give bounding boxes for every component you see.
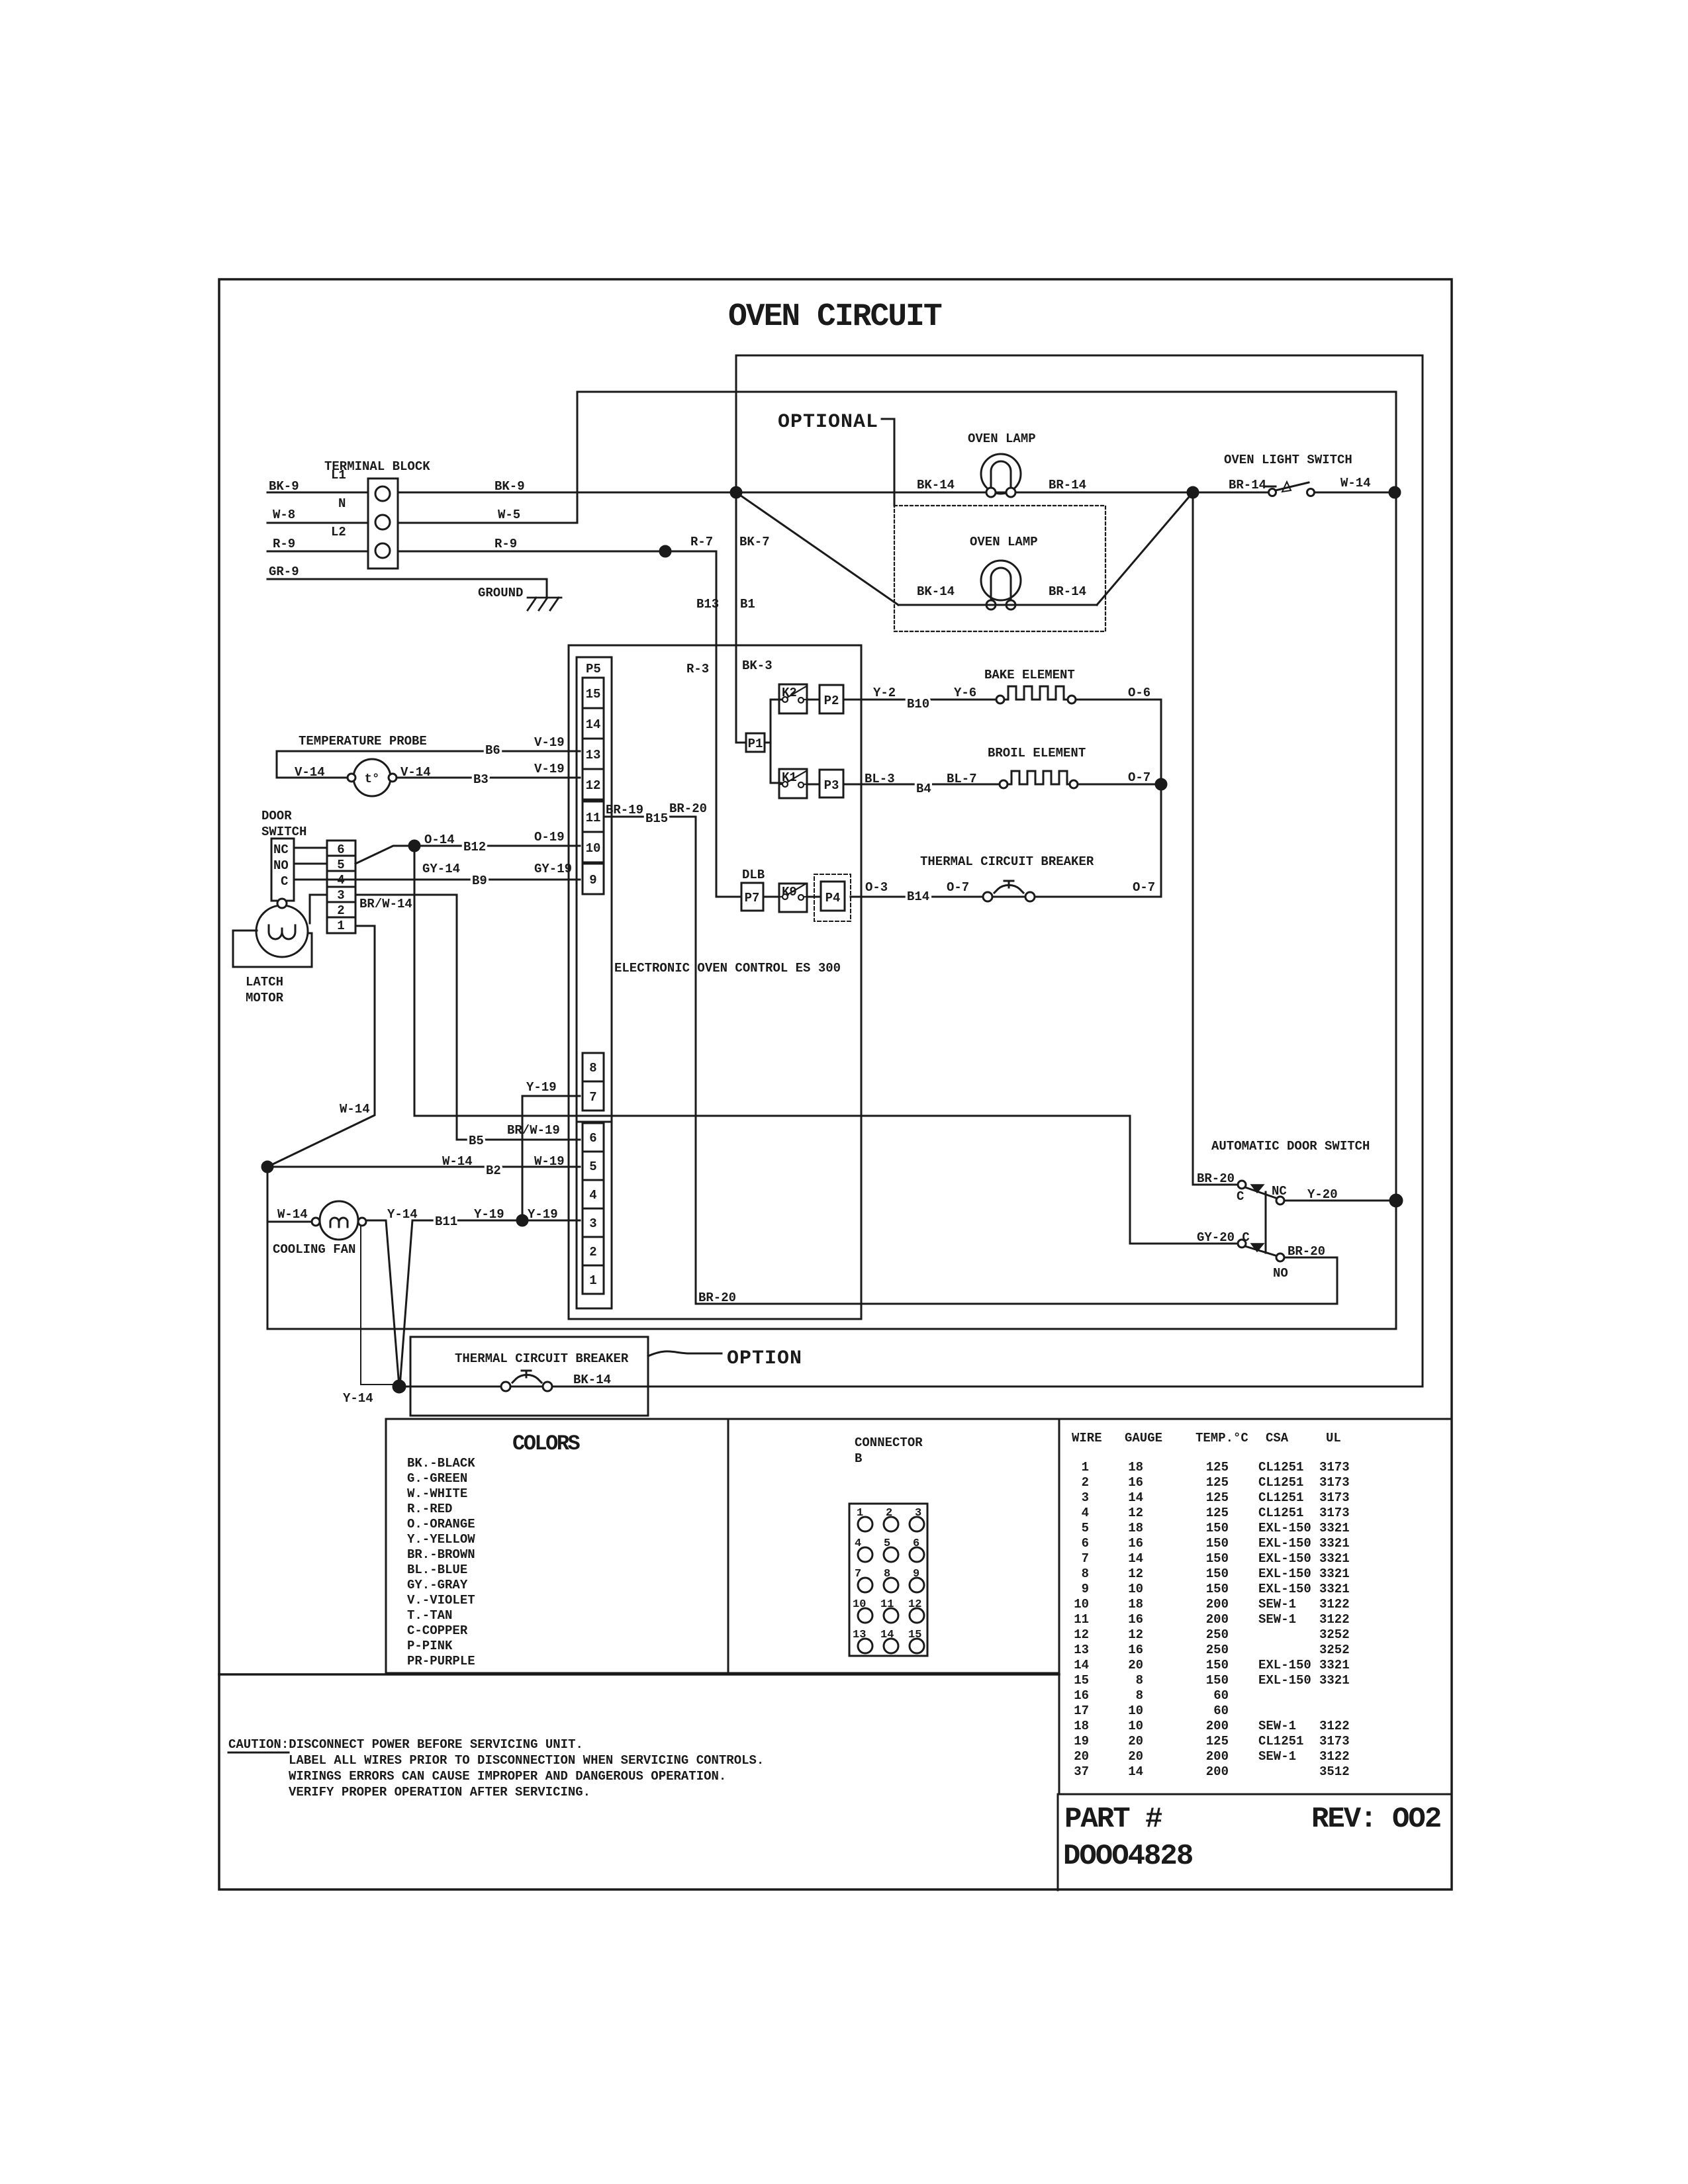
junction wire end right: [1389, 487, 1400, 498]
svg-text:OVEN LAMP: OVEN LAMP: [970, 535, 1038, 549]
svg-text:O.-ORANGE: O.-ORANGE: [407, 1517, 475, 1531]
svg-text:14: 14: [1074, 1658, 1089, 1672]
svg-text:Y-19: Y-19: [474, 1207, 504, 1222]
wire GY-20 run: down, right, down, to auto door switch C: [414, 846, 1238, 1244]
wire bake to right vertical: [1076, 699, 1161, 701]
svg-text:16: 16: [1128, 1612, 1143, 1627]
wire NC to cell6: [294, 847, 327, 849]
svg-text:13: 13: [853, 1629, 866, 1641]
svg-text:150: 150: [1206, 1536, 1229, 1551]
page border frame: [219, 279, 1452, 1889]
svg-text:O-7: O-7: [947, 880, 969, 895]
wire table box: [1059, 1419, 1452, 1794]
svg-text:OPTION: OPTION: [727, 1347, 802, 1370]
svg-text:O-6: O-6: [1128, 686, 1150, 700]
svg-text:37: 37: [1074, 1764, 1089, 1779]
cooling fan: [312, 1201, 366, 1240]
svg-text:150: 150: [1206, 1551, 1229, 1566]
svg-text:B4: B4: [916, 782, 931, 796]
svg-text:TEMPERATURE PROBE: TEMPERATURE PROBE: [299, 734, 427, 749]
optional lamp dashed enclosure: [894, 506, 1105, 631]
svg-text:EXL-150: EXL-150: [1258, 1567, 1311, 1581]
wire B12 to pin 10: [414, 845, 580, 847]
wire BK-14 to big box right: [552, 1386, 1423, 1388]
svg-text:20: 20: [1128, 1734, 1143, 1749]
svg-text:14: 14: [1128, 1490, 1143, 1505]
svg-text:10: 10: [1128, 1582, 1143, 1596]
wire W-14/B2 to pin 5: [267, 1166, 580, 1168]
svg-text:DOOO4828: DOOO4828: [1063, 1840, 1193, 1873]
wire bottom long run y2008: [267, 1328, 1396, 1330]
svg-text:C: C: [1237, 1189, 1244, 1204]
svg-text:W-14: W-14: [442, 1154, 473, 1169]
P4 box: [821, 882, 845, 911]
svg-text:CAUTION:DISCONNECT POWER BEFOR: CAUTION:DISCONNECT POWER BEFORE SERVICIN…: [228, 1737, 583, 1752]
svg-text:3173: 3173: [1319, 1506, 1350, 1520]
svg-text:T.-TAN: T.-TAN: [407, 1608, 452, 1623]
svg-text:GY.-GRAY: GY.-GRAY: [407, 1578, 468, 1592]
svg-text:BR/W-19: BR/W-19: [507, 1123, 560, 1138]
svg-text:125: 125: [1206, 1734, 1229, 1749]
svg-text:125: 125: [1206, 1460, 1229, 1475]
svg-text:150: 150: [1206, 1582, 1229, 1596]
svg-text:W-8: W-8: [273, 508, 295, 522]
svg-text:N: N: [338, 496, 346, 511]
svg-text:Y-19: Y-19: [526, 1080, 557, 1095]
svg-text:1: 1: [1082, 1460, 1089, 1475]
svg-text:BAKE ELEMENT: BAKE ELEMENT: [984, 668, 1075, 682]
svg-text:GY-19: GY-19: [534, 862, 572, 876]
svg-text:COLORS: COLORS: [512, 1432, 581, 1456]
svg-text:R-9: R-9: [494, 537, 517, 551]
svg-text:WIRINGS ERRORS CAN CAUSE IMPRO: WIRINGS ERRORS CAN CAUSE IMPROPER AND DA…: [289, 1769, 726, 1784]
svg-text:EXL-150: EXL-150: [1258, 1582, 1311, 1596]
svg-text:18: 18: [1074, 1719, 1089, 1733]
svg-text:GAUGE: GAUGE: [1125, 1431, 1162, 1445]
junction B11/Y-19: [517, 1215, 528, 1226]
svg-text:8: 8: [1136, 1673, 1143, 1688]
wire NO to cell5: [294, 863, 327, 865]
svg-text:125: 125: [1206, 1506, 1229, 1520]
junction W-14: [262, 1161, 273, 1172]
svg-text:3252: 3252: [1319, 1643, 1350, 1657]
svg-text:10: 10: [1074, 1597, 1089, 1612]
svg-text:TEMP.°C: TEMP.°C: [1196, 1431, 1248, 1445]
pin 3: [583, 1208, 604, 1237]
pin 2: [583, 1237, 604, 1265]
svg-text:C: C: [281, 874, 288, 889]
oven lamp 2: [981, 561, 1021, 610]
caution text: [228, 1737, 764, 1799]
svg-text:O-19: O-19: [534, 830, 565, 844]
connector B pins: [858, 1517, 924, 1653]
svg-text:16: 16: [1128, 1643, 1143, 1657]
svg-text:NO: NO: [273, 858, 289, 873]
svg-text:3122: 3122: [1319, 1749, 1350, 1764]
svg-text:W.-WHITE: W.-WHITE: [407, 1486, 467, 1501]
caution underline: [228, 1752, 289, 1754]
wire B6 to pin 13: [277, 751, 580, 778]
svg-text:3173: 3173: [1319, 1460, 1350, 1475]
svg-text:60: 60: [1213, 1688, 1229, 1703]
svg-text:7: 7: [1082, 1551, 1089, 1566]
pin 11: [583, 801, 604, 832]
wire BK-3 loop (big box) top and right: [736, 355, 1423, 1386]
svg-text:9: 9: [589, 873, 596, 887]
svg-text:B15: B15: [645, 811, 668, 826]
svg-text:3: 3: [1082, 1490, 1089, 1505]
svg-text:Y-20: Y-20: [1307, 1187, 1338, 1202]
svg-text:3321: 3321: [1319, 1673, 1350, 1688]
svg-text:B5: B5: [469, 1134, 484, 1148]
svg-text:Y-14: Y-14: [343, 1391, 373, 1406]
svg-text:3321: 3321: [1319, 1582, 1350, 1596]
svg-text:B12: B12: [463, 840, 486, 854]
svg-text:17: 17: [1074, 1704, 1089, 1718]
relay K9: [779, 884, 807, 912]
wire W-14 to cooling fan: [267, 1221, 314, 1223]
pin 15: [583, 678, 604, 708]
terminal block body: [368, 478, 398, 569]
wire BK-9 left: [267, 492, 368, 494]
wire B13 vertical: [716, 551, 741, 897]
svg-text:20: 20: [1128, 1749, 1143, 1764]
pin 9: [583, 864, 604, 894]
svg-text:SEW-1: SEW-1: [1258, 1719, 1296, 1733]
wire P1 to K1/K2: [765, 700, 781, 783]
pin 5: [583, 1152, 604, 1180]
svg-text:R-9: R-9: [273, 537, 295, 551]
wire W-8 left: [267, 522, 368, 524]
wire P7 to K9: [763, 896, 779, 898]
wire Y-20: [1284, 1200, 1396, 1202]
pin 12: [583, 769, 604, 799]
svg-text:GROUND: GROUND: [478, 586, 523, 600]
svg-text:4: 4: [589, 1188, 596, 1203]
P1 box: [746, 733, 765, 752]
junction O-14: [409, 841, 420, 851]
latch motor: [256, 899, 308, 957]
optional thermal breaker box: [410, 1337, 648, 1416]
svg-text:R-3: R-3: [686, 662, 709, 676]
wire Y-19 to pin 7: [522, 1096, 580, 1220]
svg-text:8: 8: [1136, 1688, 1143, 1703]
svg-text:CL1251: CL1251: [1258, 1734, 1303, 1749]
svg-text:BR-14: BR-14: [1049, 584, 1086, 599]
svg-text:BL.-BLUE: BL.-BLUE: [407, 1563, 467, 1577]
svg-text:EXL-150: EXL-150: [1258, 1658, 1311, 1672]
svg-text:125: 125: [1206, 1490, 1229, 1505]
wire cell1 to W-14 diagonal junction: [267, 926, 375, 1167]
wire BR-19/B15/BR-20 from pin 11: [604, 817, 1337, 1304]
oven lamp 1: [981, 454, 1021, 497]
svg-text:5: 5: [1082, 1521, 1089, 1535]
svg-text:19: 19: [1074, 1734, 1089, 1749]
svg-text:11: 11: [880, 1598, 894, 1611]
OPTIONAL leader line: [882, 419, 894, 506]
wire P4 to thermal breaker: [851, 896, 984, 898]
svg-text:OVEN CIRCUIT: OVEN CIRCUIT: [728, 299, 942, 335]
wire table rows: [1074, 1460, 1349, 1779]
svg-text:15: 15: [1074, 1673, 1089, 1688]
svg-text:B3: B3: [473, 772, 489, 787]
svg-text:3321: 3321: [1319, 1536, 1350, 1551]
relay K2: [779, 684, 807, 713]
wire broil to right vertical: [1078, 784, 1161, 786]
svg-text:BR-14: BR-14: [1229, 478, 1266, 492]
terminal L1 circle: [375, 486, 390, 501]
oven light switch: [1266, 482, 1315, 496]
connector B pin field box: [849, 1504, 927, 1656]
svg-text:V-19: V-19: [534, 735, 565, 750]
wire K2 to P2: [807, 699, 820, 701]
svg-text:16: 16: [1128, 1536, 1143, 1551]
svg-text:8: 8: [1082, 1567, 1089, 1581]
svg-text:16: 16: [1074, 1688, 1089, 1703]
svg-text:W-19: W-19: [534, 1154, 565, 1169]
svg-text:EXL-150: EXL-150: [1258, 1551, 1311, 1566]
svg-text:NO: NO: [1273, 1266, 1288, 1281]
svg-text:3: 3: [589, 1216, 596, 1231]
right vertical bake/broil/breaker: [1160, 700, 1162, 895]
svg-text:BR/W-14: BR/W-14: [359, 897, 412, 911]
svg-text:BK-14: BK-14: [917, 478, 955, 492]
svg-text:12: 12: [1128, 1627, 1143, 1642]
svg-text:W-14: W-14: [277, 1207, 308, 1222]
svg-text:BK-9: BK-9: [269, 479, 299, 494]
svg-text:GY-14: GY-14: [422, 862, 460, 876]
svg-text:3: 3: [915, 1507, 921, 1520]
svg-text:150: 150: [1206, 1567, 1229, 1581]
svg-text:C-COPPER: C-COPPER: [407, 1623, 468, 1638]
wire junction to breaker: [399, 1386, 501, 1388]
svg-text:L2: L2: [331, 525, 346, 539]
svg-text:3321: 3321: [1319, 1567, 1350, 1581]
svg-text:3: 3: [337, 888, 344, 903]
wire table header: [1072, 1431, 1341, 1445]
svg-text:3122: 3122: [1319, 1719, 1350, 1733]
svg-text:CSA: CSA: [1266, 1431, 1289, 1445]
svg-text:11: 11: [1074, 1612, 1089, 1627]
svg-text:B9: B9: [472, 874, 487, 888]
svg-text:BL-7: BL-7: [947, 772, 977, 786]
optional thermal breaker: [501, 1371, 552, 1391]
ads link vertical: [1265, 1192, 1267, 1253]
svg-text:OVEN LAMP: OVEN LAMP: [968, 432, 1036, 446]
svg-text:10: 10: [853, 1598, 866, 1611]
svg-text:P2: P2: [824, 694, 839, 708]
svg-text:OVEN LIGHT SWITCH: OVEN LIGHT SWITCH: [1224, 453, 1352, 467]
svg-text:11: 11: [586, 811, 601, 825]
wire B3 to pin 12: [397, 777, 580, 779]
ground symbol: [528, 598, 561, 610]
wire K1 to P3: [807, 784, 820, 786]
svg-text:8: 8: [589, 1061, 596, 1075]
svg-text:t°: t°: [365, 772, 380, 786]
svg-text:3321: 3321: [1319, 1551, 1350, 1566]
ads switch lower C-NO: [1238, 1240, 1284, 1261]
wire lamp2 horizontal: [898, 604, 1097, 606]
wire K9 to P4: [807, 896, 821, 898]
svg-text:PART #: PART #: [1064, 1803, 1162, 1836]
svg-text:V-19: V-19: [534, 762, 565, 776]
svg-text:BROIL ELEMENT: BROIL ELEMENT: [988, 746, 1086, 760]
svg-text:BR-20: BR-20: [1197, 1171, 1235, 1186]
wire P2 to bake element: [843, 699, 996, 701]
P4 dashed enclosure: [814, 874, 851, 921]
svg-text:12: 12: [1074, 1627, 1089, 1642]
svg-text:SEW-1: SEW-1: [1258, 1749, 1296, 1764]
wire BR-20 vertical to auto door switch: [1193, 492, 1238, 1185]
svg-text:O-7: O-7: [1133, 880, 1155, 895]
svg-text:P1: P1: [748, 737, 763, 751]
svg-text:LATCH: LATCH: [246, 975, 283, 989]
svg-text:14: 14: [880, 1629, 894, 1641]
temperature probe: [348, 759, 397, 796]
pin 13: [583, 739, 604, 769]
svg-text:WIRE: WIRE: [1072, 1431, 1102, 1445]
svg-text:4: 4: [1082, 1506, 1089, 1520]
svg-text:NC: NC: [273, 842, 289, 857]
svg-text:THERMAL CIRCUIT BREAKER: THERMAL CIRCUIT BREAKER: [455, 1351, 629, 1366]
door connector strip: [327, 841, 355, 933]
svg-text:BR-20: BR-20: [669, 801, 707, 816]
wire BK-9 right: [398, 492, 1396, 494]
svg-text:AUTOMATIC DOOR SWITCH: AUTOMATIC DOOR SWITCH: [1211, 1139, 1370, 1154]
connector B pin numbers: [853, 1507, 921, 1641]
svg-text:15: 15: [586, 687, 601, 702]
wire GR-9: [267, 579, 547, 598]
svg-text:5: 5: [589, 1160, 596, 1174]
svg-text:B6: B6: [485, 743, 500, 758]
svg-text:DOOR: DOOR: [261, 809, 292, 823]
svg-text:1: 1: [337, 919, 344, 933]
svg-text:10: 10: [1128, 1704, 1143, 1718]
svg-text:3512: 3512: [1319, 1764, 1350, 1779]
svg-text:10: 10: [1128, 1719, 1143, 1733]
colors list: [407, 1456, 475, 1668]
svg-text:SEW-1: SEW-1: [1258, 1597, 1296, 1612]
P7 box: [741, 883, 763, 911]
wire cell5 diagonal to O-14 junction: [355, 846, 414, 864]
svg-text:18: 18: [1128, 1460, 1143, 1475]
pin 14: [583, 708, 604, 739]
svg-text:GR-9: GR-9: [269, 565, 299, 579]
part number box left edge: [1057, 1794, 1059, 1890]
svg-text:60: 60: [1213, 1704, 1229, 1718]
svg-text:PR-PURPLE: PR-PURPLE: [407, 1654, 475, 1668]
svg-text:10: 10: [586, 841, 601, 856]
svg-text:BK-7: BK-7: [739, 535, 770, 549]
wire diagonal lamp2 to junction right: [1097, 492, 1193, 605]
svg-text:CONNECTOR: CONNECTOR: [855, 1435, 923, 1450]
wire diagonal junction to lamp2: [736, 492, 898, 605]
svg-text:8: 8: [884, 1568, 890, 1580]
svg-text:B2: B2: [486, 1163, 501, 1178]
wire W-5: [398, 392, 577, 523]
svg-text:O-3: O-3: [865, 880, 888, 895]
svg-text:W-14: W-14: [1340, 476, 1371, 490]
svg-text:3173: 3173: [1319, 1734, 1350, 1749]
svg-text:P4: P4: [825, 891, 841, 905]
svg-text:EXL-150: EXL-150: [1258, 1536, 1311, 1551]
wire R-9 right: [398, 551, 716, 553]
svg-text:3173: 3173: [1319, 1475, 1350, 1490]
svg-text:LABEL ALL WIRES PRIOR TO DISCO: LABEL ALL WIRES PRIOR TO DISCONNECTION W…: [289, 1753, 764, 1768]
svg-text:CL1251: CL1251: [1258, 1460, 1303, 1475]
svg-text:250: 250: [1206, 1627, 1229, 1642]
svg-text:7: 7: [589, 1090, 596, 1105]
svg-text:P3: P3: [824, 778, 839, 793]
svg-text:ELECTRONIC OVEN CONTROL ES 300: ELECTRONIC OVEN CONTROL ES 300: [614, 961, 841, 976]
svg-text:5: 5: [337, 858, 344, 872]
divider line above caution area: [219, 1673, 1059, 1676]
svg-text:3122: 3122: [1319, 1612, 1350, 1627]
svg-text:SEW-1: SEW-1: [1258, 1612, 1296, 1627]
svg-text:5: 5: [884, 1537, 890, 1550]
bake element: [996, 686, 1076, 704]
svg-text:16: 16: [1128, 1475, 1143, 1490]
pin 8: [583, 1053, 604, 1081]
svg-text:G.-GREEN: G.-GREEN: [407, 1471, 467, 1486]
door switch box: [271, 839, 294, 901]
svg-text:OPTIONAL: OPTIONAL: [778, 411, 878, 433]
svg-text:12: 12: [1128, 1567, 1143, 1581]
connector B box: [728, 1419, 1059, 1673]
svg-text:BR.-BROWN: BR.-BROWN: [407, 1547, 475, 1562]
thermal circuit breaker (right): [983, 881, 1035, 901]
svg-text:BK-9: BK-9: [494, 479, 525, 494]
svg-text:CL1251: CL1251: [1258, 1490, 1303, 1505]
svg-text:2: 2: [337, 903, 344, 918]
svg-text:B: B: [855, 1451, 862, 1466]
svg-text:1: 1: [589, 1273, 596, 1288]
svg-text:MOTOR: MOTOR: [246, 991, 284, 1005]
svg-text:4: 4: [855, 1537, 861, 1550]
colors box: [386, 1419, 728, 1673]
svg-text:NC: NC: [1272, 1184, 1287, 1199]
wire cell3 right BR/W-14 down to pin6 B5: [355, 895, 580, 1140]
svg-text:200: 200: [1206, 1719, 1229, 1733]
svg-text:SWITCH: SWITCH: [261, 825, 306, 839]
connector P5 enclosure: [577, 657, 612, 1308]
svg-text:Y-14: Y-14: [387, 1207, 418, 1222]
svg-text:200: 200: [1206, 1764, 1229, 1779]
svg-text:6: 6: [337, 842, 344, 857]
svg-text:BL-3: BL-3: [865, 772, 895, 786]
svg-text:BK-14: BK-14: [573, 1373, 611, 1387]
strip cell lines: [327, 856, 355, 917]
svg-text:EXL-150: EXL-150: [1258, 1673, 1311, 1688]
svg-text:150: 150: [1206, 1521, 1229, 1535]
OPTION leader: [648, 1351, 722, 1356]
connector lower enclosure: [577, 1122, 612, 1308]
junction lamp2 right: [1188, 487, 1198, 498]
svg-text:14: 14: [586, 717, 601, 732]
svg-text:P5: P5: [586, 662, 601, 676]
svg-text:L1: L1: [331, 468, 346, 482]
wire breaker to right vertical: [1035, 895, 1161, 897]
svg-text:V.-VIOLET: V.-VIOLET: [407, 1593, 475, 1608]
svg-text:W-14: W-14: [340, 1102, 370, 1116]
wire W-14 vertical down to bottom run: [267, 1167, 269, 1329]
svg-text:9: 9: [1082, 1582, 1089, 1596]
svg-text:3321: 3321: [1319, 1658, 1350, 1672]
svg-text:6: 6: [913, 1537, 919, 1550]
junction Y-20: [1390, 1195, 1402, 1206]
svg-text:BR-20: BR-20: [698, 1291, 736, 1305]
junction broil right: [1156, 779, 1166, 790]
